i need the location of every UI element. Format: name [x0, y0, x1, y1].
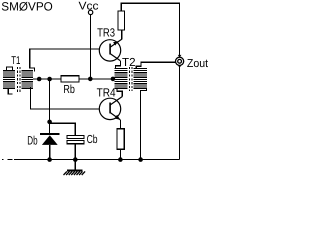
- Vcc terminal: [88, 10, 92, 14]
- node Cb ground junction: [73, 157, 78, 162]
- resistor Rb: [61, 76, 79, 82]
- wire Vcc vertical to bias rail: [90, 15, 92, 79]
- node bias to Cb junction: [47, 120, 52, 125]
- wire Cb to ground rail: [74, 144, 76, 160]
- svg-text:Rb: Rb: [63, 83, 75, 96]
- node T2 ground junction: [138, 157, 143, 162]
- svg-text:TR3: TR3: [97, 25, 115, 39]
- svg-text:T1: T1: [11, 55, 20, 67]
- wire Zout to ground rail: [179, 66, 181, 160]
- wire ground rail continuation dashes: [2, 159, 13, 161]
- transformer T1 primary top lead stub: [6, 67, 12, 71]
- wire resistor to ground rail: [119, 149, 121, 159]
- wire top rail resistor to Zout: [121, 3, 179, 56]
- connector Zout: [176, 55, 184, 68]
- svg-text:Cb: Cb: [87, 133, 98, 146]
- transformer T1 primary bottom lead stub: [8, 88, 12, 94]
- wire TR3 emitter to resistor: [121, 30, 123, 39]
- capacitor Cb bottom plate: [67, 141, 84, 144]
- transformer T1 primary winding: [3, 71, 15, 89]
- wire T2 secondary top to Zout: [136, 62, 175, 68]
- wire Db to ground rail: [49, 145, 51, 160]
- capacitor Cb top plate: [67, 135, 84, 138]
- node T2 center tap: [111, 77, 116, 82]
- svg-text:TR4: TR4: [97, 86, 116, 100]
- transformer T2 secondary winding: [134, 68, 147, 88]
- svg-text:SMØVPO: SMØVPO: [1, 0, 53, 14]
- wire T2 secondary bottom to ground rail: [141, 88, 147, 159]
- ground: [64, 160, 86, 175]
- wire Rb to T2 center tap: [79, 78, 115, 80]
- svg-text:Db: Db: [27, 133, 37, 147]
- transformer T2 primary winding: [115, 68, 128, 88]
- node bias junction: [47, 77, 52, 82]
- svg-text:Zout: Zout: [187, 58, 209, 70]
- wire bias vertical: [49, 79, 51, 133]
- transformer T2 core: [130, 67, 132, 91]
- node Db ground junction: [47, 157, 52, 162]
- wire T1 secondary bottom to TR4 base: [31, 87, 100, 109]
- wire T1 secondary top to TR3 base: [30, 49, 100, 72]
- transistor TR4: [99, 97, 122, 120]
- transformer T1 secondary winding: [22, 71, 34, 89]
- wire ground rail: [14, 159, 180, 161]
- node center tap: [37, 77, 42, 82]
- wire TR3 collector to T2: [115, 61, 120, 69]
- transistor TR3: [99, 39, 121, 61]
- wire bias node to Cb: [50, 123, 76, 135]
- resistor emitter TR4: [117, 129, 124, 150]
- wire T1 center tap to Rb: [33, 78, 61, 80]
- svg-text:T2: T2: [122, 56, 136, 69]
- diode Db body: [42, 135, 58, 145]
- wire TR4 collector to T2: [117, 88, 122, 96]
- resistor emitter TR3: [118, 11, 124, 30]
- transformer T1 core: [17, 67, 20, 93]
- wire TR4 emitter to resistor: [119, 120, 121, 129]
- node resistor ground junction: [118, 157, 123, 162]
- node Vcc junction: [88, 77, 93, 82]
- diode Db cathode bar: [40, 133, 60, 135]
